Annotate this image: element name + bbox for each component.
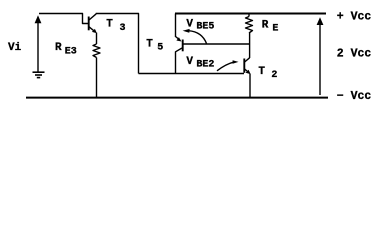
transistor Q T5 (pnp) emitter arrow bbox=[176, 37, 182, 42]
wire T5 base to node C bbox=[183, 43, 249, 45]
label T 3 bbox=[106, 18, 125, 33]
svg-text:3: 3 bbox=[120, 23, 126, 34]
svg-text:V: V bbox=[186, 18, 193, 30]
transistor Q T5 bar bbox=[182, 40, 184, 52]
wire +Vcc rail to T5 emitter bbox=[175, 14, 177, 38]
svg-text:Vi: Vi bbox=[8, 42, 22, 54]
label R E3 bbox=[55, 42, 77, 57]
label V BE5 bbox=[186, 18, 214, 32]
wire Vi to T3 base bbox=[39, 14, 88, 24]
svg-text:T: T bbox=[106, 18, 113, 30]
svg-text:2: 2 bbox=[271, 70, 277, 81]
svg-text:E3: E3 bbox=[65, 46, 77, 57]
label T 2 bbox=[258, 66, 277, 81]
ground bbox=[33, 72, 45, 77]
measure arrow 2Vcc bbox=[317, 17, 324, 95]
svg-text:BE5: BE5 bbox=[196, 22, 214, 33]
svg-text:V: V bbox=[186, 56, 193, 68]
wire T3 collector to node B bbox=[96, 14, 139, 74]
svg-text:E: E bbox=[272, 24, 278, 35]
wire T5 collector to T2 base wire bbox=[176, 48, 183, 74]
arrow VBE2 pointer bbox=[217, 60, 239, 71]
transistor Q T2 bbox=[244, 58, 250, 74]
node +Vcc rail (top supply wire) bbox=[175, 13, 326, 15]
resistor RE3 bbox=[93, 44, 100, 58]
svg-text:2 Vcc: 2 Vcc bbox=[337, 48, 372, 61]
wire node B to T2 base bbox=[139, 73, 245, 75]
svg-text:T: T bbox=[258, 66, 265, 78]
svg-text:R: R bbox=[262, 20, 269, 32]
label V BE2 bbox=[186, 56, 214, 71]
label R E bbox=[262, 20, 279, 35]
wire +Vcc rail to RE bbox=[248, 14, 250, 17]
svg-text:− Vcc: − Vcc bbox=[337, 90, 372, 103]
wire T2 collector / RE bottom node C bbox=[249, 33, 251, 58]
source Vi arrow bbox=[35, 15, 42, 71]
wire T2 emitter to -Vcc bbox=[249, 74, 251, 98]
svg-text:+ Vcc: + Vcc bbox=[337, 11, 372, 24]
arrow VBE5 pointer bbox=[183, 29, 207, 44]
svg-text:T: T bbox=[146, 38, 153, 50]
svg-text:BE2: BE2 bbox=[196, 60, 214, 71]
node -Vcc rail (bottom supply wire) bbox=[26, 97, 328, 99]
wire T3 emitter to RE3 bbox=[96, 33, 98, 44]
wire RE3 to -Vcc bbox=[96, 58, 98, 98]
resistor RE bbox=[246, 17, 253, 34]
transistor Q T3 bbox=[89, 14, 97, 34]
svg-text:R: R bbox=[55, 42, 62, 54]
label T 5 bbox=[146, 38, 163, 53]
svg-text:5: 5 bbox=[157, 43, 163, 54]
